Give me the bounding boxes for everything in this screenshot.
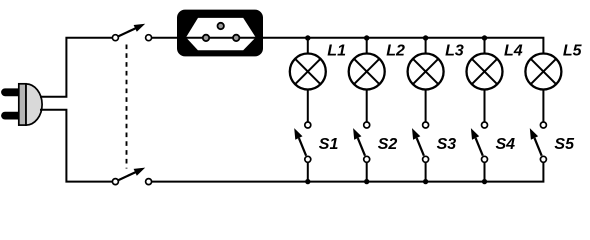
wire: L3 to S3	[425, 90, 427, 122]
wire: S2 to bottom rail	[366, 163, 368, 182]
svg-text:S3: S3	[437, 136, 457, 153]
wire: L1 to S1	[307, 90, 309, 122]
wire: L5 to S5	[542, 90, 544, 122]
node: junction dot below S3	[423, 179, 428, 184]
wire: L2 to S2	[366, 90, 368, 122]
svg-text:L3: L3	[445, 43, 464, 60]
wire: S3 to bottom rail	[425, 163, 427, 182]
node: junction dot above L3	[423, 35, 428, 40]
node: junction dot above L1	[305, 35, 310, 40]
node: junction dot below S4	[482, 179, 487, 184]
switch S5	[530, 122, 575, 162]
wire: branch to L3	[425, 38, 427, 53]
svg-text:L5: L5	[563, 43, 583, 60]
wire: switch to socket	[152, 37, 180, 39]
switch S3	[412, 122, 456, 162]
svg-text:S4: S4	[496, 136, 516, 153]
svg-text:S1: S1	[319, 136, 339, 153]
node: junction dot below S1	[305, 179, 310, 184]
wire: branch to L2	[366, 38, 368, 53]
switch S4	[471, 122, 515, 162]
socket (power outlet)	[177, 10, 263, 57]
lamp L3	[408, 43, 464, 90]
svg-text:L4: L4	[504, 43, 523, 60]
svg-text:L2: L2	[386, 43, 405, 60]
lamp L2	[349, 43, 405, 90]
switch: top pole of double-pole switch	[112, 24, 151, 41]
mechanical link (dashed) between switch poles	[126, 45, 128, 169]
wire: L4 to S4	[484, 90, 486, 122]
wire: S1 to bottom rail	[307, 163, 309, 182]
wire: branch to L1	[307, 38, 309, 53]
switch: bottom pole of double-pole switch	[112, 168, 151, 185]
svg-text:S5: S5	[554, 136, 575, 153]
plug (mains plug)	[5, 84, 42, 125]
wire: bottom rail from switch to S5 branch	[152, 163, 544, 182]
switch S1	[294, 122, 338, 162]
wire: top rail from socket to lamp L5 branch	[260, 38, 543, 53]
node: junction dot above L4	[482, 35, 487, 40]
svg-text:L1: L1	[327, 43, 346, 60]
wire: branch to L4	[484, 38, 486, 53]
svg-text:S2: S2	[378, 136, 398, 153]
wire: S4 to bottom rail	[484, 163, 486, 182]
wire: plug top terminal to top rail and to double-pole switch	[40, 38, 112, 97]
node: junction dot above L2	[364, 35, 369, 40]
wire: plug bottom terminal to bottom rail left segment	[40, 110, 112, 182]
switch S2	[353, 122, 397, 162]
lamp L5	[525, 43, 582, 90]
node: junction dot below S2	[364, 179, 369, 184]
lamp L1	[290, 43, 346, 90]
lamp L4	[467, 43, 523, 90]
